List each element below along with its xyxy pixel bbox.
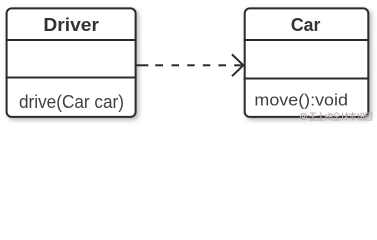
Driver compartment separator 2 <box>6 77 137 79</box>
svg-text:drive(Car car): drive(Car car) <box>19 92 124 112</box>
class box Car <box>245 8 369 117</box>
Car compartment separator 1 <box>244 39 370 41</box>
svg-text:Car: Car <box>291 15 321 35</box>
dash segment 1 <box>136 64 148 66</box>
dash segment 2 <box>155 64 163 66</box>
dependency dashed line Driver to Car <box>136 64 241 66</box>
dash segment 5 <box>203 64 211 66</box>
dash segment 6 <box>219 64 227 66</box>
svg-text:Driver: Driver <box>43 15 99 35</box>
dash segment 3 <box>172 64 180 66</box>
dash segment 7 <box>234 64 242 66</box>
Driver compartment separator 1 <box>6 39 137 41</box>
arrowhead at Car <box>232 54 243 76</box>
svg-text:move():void: move():void <box>254 91 348 110</box>
class box Driver <box>7 8 136 117</box>
dash segment 4 <box>187 64 195 66</box>
Car compartment separator 2 <box>244 78 370 80</box>
watermark @xitu juejin tech community <box>300 113 306 119</box>
